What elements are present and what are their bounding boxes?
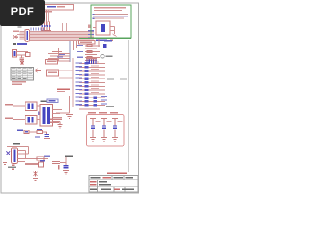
inductor L1 — [24, 130, 29, 133]
stub net labels — [57, 54, 65, 58]
wire L1 to R10 — [29, 131, 37, 133]
revision note above title block — [107, 173, 127, 175]
wire PF2 to rows bus — [59, 69, 74, 71]
connector J1 — [25, 30, 30, 42]
oscillator U6 — [12, 148, 18, 164]
signal vertical to gates — [69, 41, 71, 62]
diode D1 — [26, 53, 31, 57]
title block — [89, 176, 138, 193]
mid stub wires — [48, 54, 70, 62]
ground under X2 — [33, 179, 38, 181]
filter row: net label — [17, 130, 23, 132]
net label right of R11 — [44, 156, 50, 157]
decoupling caps box — [87, 115, 125, 147]
series termination rows column — [76, 58, 108, 109]
note text under table — [12, 81, 26, 83]
ground under C8 — [63, 171, 69, 175]
refdes text under U6 — [8, 167, 16, 168]
capacitor C8 — [64, 165, 69, 166]
wire end ticks — [93, 14, 95, 15]
wire stub left of shield box — [88, 25, 91, 29]
connector J1 refdes — [18, 26, 22, 27]
capacitor C3 — [90, 119, 96, 142]
bottom row — [90, 188, 97, 189]
wires of C7 node — [60, 157, 66, 165]
green wire under box — [79, 38, 131, 40]
page background — [0, 0, 149, 198]
PDF badge — [0, 0, 45, 26]
mux U5 — [40, 105, 53, 127]
J1 inner bar — [26, 31, 28, 40]
bus vertical drop wires — [59, 41, 77, 61]
R12 label — [40, 160, 45, 161]
ground GND1 — [66, 115, 73, 119]
wire into U4 — [13, 119, 25, 121]
wire vertical from PF3 — [98, 39, 100, 47]
stub row labels — [77, 45, 83, 58]
note text left of cap box — [50, 119, 62, 121]
R10 label — [37, 129, 42, 130]
gate U4 — [25, 116, 37, 125]
junction mark — [58, 165, 59, 170]
wire drops to bus — [63, 23, 67, 31]
capacitor C5 — [112, 119, 118, 142]
wire into U3 — [13, 105, 25, 107]
series cap bottom: bars — [52, 161, 60, 162]
stub label red — [52, 51, 62, 52]
right mid stub rows — [85, 46, 100, 61]
capacitor C2 inside U2 — [101, 24, 105, 32]
capacitor C1 bars — [20, 57, 25, 58]
wires from Y1 — [17, 52, 29, 59]
no-connect circle — [101, 55, 105, 59]
wire vertical 2 from RP1 — [48, 10, 50, 22]
wire long vertical right margin — [128, 40, 130, 172]
input label U4 — [5, 118, 13, 120]
wire arrow right of table — [36, 69, 42, 72]
U6 wires — [7, 147, 48, 162]
resistor R11 — [37, 157, 44, 160]
wire R10 to C6 — [43, 131, 48, 133]
resistor pack RP1 box — [45, 5, 74, 11]
signal tick between U3 and U5 — [38, 112, 40, 116]
title row text — [91, 177, 101, 178]
crystal load: wires double — [25, 163, 39, 164]
net label left of J1 — [13, 31, 19, 32]
small label mid — [35, 136, 40, 137]
oscillator U6 refdes — [13, 143, 20, 145]
wire vertical from RP1 — [46, 10, 48, 26]
wire to ground mid — [56, 96, 70, 113]
C6 value label — [44, 138, 50, 139]
annotation text right of column — [107, 79, 114, 80]
row value labels red — [91, 62, 107, 105]
J1 left pin stubs — [17, 32, 25, 40]
ESD suppressor U2 box — [96, 21, 110, 35]
note text in shield box — [94, 7, 126, 8]
input label U3 — [5, 104, 13, 106]
crystal X2 — [34, 171, 38, 177]
net label in RP1 box — [47, 6, 56, 8]
pin number ticks above bus — [31, 27, 44, 30]
shield box (green) — [91, 5, 131, 38]
net label right of PF3 — [104, 40, 112, 42]
bus vertical left of rows — [72, 58, 74, 107]
power flag box PF1 — [46, 60, 58, 65]
node X1 — [7, 152, 11, 156]
junction cluster above column — [86, 58, 97, 59]
resistor R12 — [39, 162, 44, 167]
crystal Y1 — [13, 50, 17, 58]
wires U3/U4 to U5 and out — [37, 106, 62, 122]
bus net labels right — [88, 30, 94, 38]
data bus from J1 — [30, 32, 94, 41]
ground under U5 outputs — [58, 122, 63, 129]
cage row — [90, 181, 97, 182]
R8 body dots — [41, 25, 50, 27]
power flag box PF3 right — [79, 41, 96, 45]
power labels above caps box — [88, 112, 96, 114]
net label under J1 — [13, 43, 16, 45]
ferrite bead FB1 — [103, 44, 107, 48]
capacitor C4 — [101, 119, 107, 142]
resistor R10 — [37, 131, 43, 134]
ground stub under U6 — [3, 163, 7, 165]
value label under RP1 — [44, 11, 52, 13]
label above — [65, 155, 73, 157]
U6 inner bar — [13, 149, 15, 162]
note text above H1 — [57, 89, 70, 91]
stub row component boxes — [87, 45, 92, 59]
wires from U2 — [93, 27, 117, 37]
wires in shield box — [93, 14, 128, 18]
junction dot under U6 — [12, 165, 15, 167]
power flag box PF2 — [47, 70, 59, 76]
net label below shield box — [96, 40, 107, 42]
cap value labels — [96, 121, 123, 122]
wire table to rows bus — [59, 77, 73, 79]
U5 refdes — [41, 101, 48, 103]
Y1 inner bar — [14, 51, 16, 56]
resistor cluster R8 — [41, 22, 51, 31]
pin table — [11, 68, 34, 81]
gate U3 — [25, 102, 37, 111]
hierarchy label box H1 — [47, 99, 58, 103]
node marker above table — [20, 61, 24, 66]
node arrow left of J1 — [13, 36, 17, 39]
capacitor C6 — [46, 132, 48, 134]
dense pin group top of column — [87, 59, 96, 65]
